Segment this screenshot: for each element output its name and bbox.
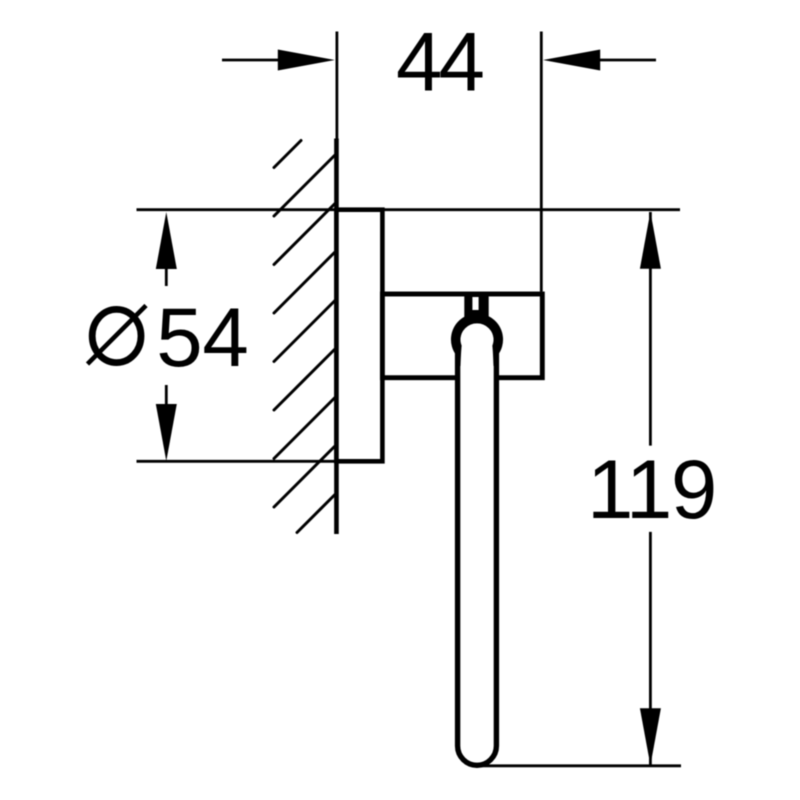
dim D54 upper tail [165,268,168,286]
hatch line 8 [297,495,335,533]
hatch line 7 [274,447,335,508]
dim 44 left arrowhead [278,50,335,71]
bottom extension line (119) [479,764,681,767]
svg-text:54: 54 [156,290,248,384]
dim 44 right arrowhead [543,50,600,71]
hatch line 6 [274,398,335,459]
hatch line 2 [274,204,335,265]
svg-text:119: 119 [587,442,716,536]
extension line 44 left (above wall) [335,32,338,141]
dim D54 down arrowhead [156,404,177,461]
pin block [464,292,488,317]
roll holder ring (stadium loop) [458,321,497,766]
ring thick top crescent [451,313,503,366]
dim 119 upper line [649,212,652,446]
dim 119 up arrowhead [640,212,661,269]
bottom extension line (D54) [137,460,337,463]
hatch line 5 [274,350,335,411]
wall plate (side view) [336,210,382,462]
hatch line 3 [274,253,335,314]
dim D54 up arrowhead [156,212,177,269]
hatch line 1 [274,156,335,217]
wall edge line [334,139,339,535]
pin slot [472,297,478,310]
dim 119 down arrowhead [640,708,661,765]
hatch line 4 [274,301,335,362]
hatch stub line [274,141,301,168]
holder body [382,294,542,378]
dim 44 left tail [222,59,280,62]
dim D54 lower tail [165,385,168,404]
dim 44 right tail [599,59,656,62]
svg-text:44: 44 [396,14,482,108]
label D54 diameter symbol [88,306,147,365]
dim 119 lower line [649,532,652,765]
top extension line (D54 / 119) [137,208,681,211]
wall hatching [274,141,335,533]
extension line 44 right [540,32,543,292]
